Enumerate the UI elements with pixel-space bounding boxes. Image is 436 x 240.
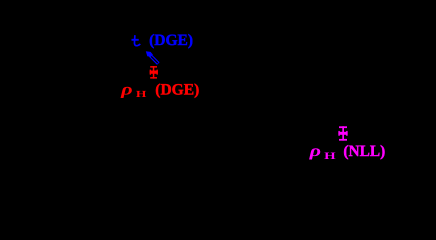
svg-text:ρ: ρ <box>120 80 133 99</box>
svg-text:(DGE): (DGE) <box>155 82 199 99</box>
svg-text:(DGE): (DGE) <box>149 32 193 49</box>
antialiasing filter (identity) <box>0 0 1 1</box>
svg-text:H: H <box>136 90 148 100</box>
arrow (blue, head up-left toward label, shaft down-right) <box>146 51 159 63</box>
label rho_H (DGE) (red) <box>120 80 199 100</box>
marker (red error bar with cross) <box>150 66 158 79</box>
marker (magenta error bar with cross) <box>338 126 347 140</box>
label rho_H (NLL) (magenta) <box>308 141 385 162</box>
svg-text:H: H <box>324 151 336 162</box>
svg-text:(NLL): (NLL) <box>343 143 385 160</box>
label t (DGE) <box>132 32 194 49</box>
svg-text:ρ: ρ <box>308 141 321 160</box>
